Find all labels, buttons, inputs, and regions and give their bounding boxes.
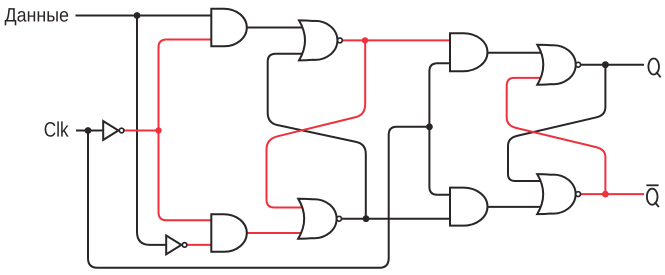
wire: red inverted clock down to AND2 upper input — [159, 131, 214, 221]
wire: Q-bar feedback crossover to NOR3 lower input (red) — [507, 78, 606, 194]
wire: AND2 output to NOR2 lower input (red) — [246, 232, 305, 234]
wire: NOR2 output to AND4 lower input — [342, 218, 452, 220]
AND gate 1 (data AND clock-bar) — [211, 9, 246, 47]
wire: AND4 output to NOR4 lower input — [487, 206, 544, 208]
wire: clock branch up to AND3 lower input — [429, 63, 452, 127]
junction: data line split — [134, 12, 141, 19]
wire: red inverted clock up to AND1 lower input — [159, 40, 214, 131]
wire: AND3 output to NOR3 upper input — [487, 52, 544, 54]
wire: Данные input to AND1 upper input — [76, 15, 214, 17]
AND gate 2 (data-bar AND clock-bar) — [211, 214, 247, 252]
wire: Q feedback crossover to NOR4 upper input — [508, 65, 605, 181]
wire: Clk down, along bottom, up to clock junction — [88, 127, 429, 268]
label: Q output — [648, 59, 660, 78]
wire: NOR1 output feedback crossover to NOR2 upper input (red) — [267, 40, 366, 207]
inverter U2 (data inverter) — [166, 236, 181, 255]
AND gate 4 (second stage, bottom) — [450, 188, 488, 226]
wire: Clk label to inverter U1 input — [76, 130, 104, 132]
wire: inverter U1 output (inverted clock, red) — [124, 130, 159, 132]
NOR gate 4 (output latch, bottom, drives Q-bar) — [537, 174, 575, 214]
wire: inverter U2 output to AND2 lower input (red) — [188, 244, 214, 246]
junction: Q-bar output split (red) — [602, 191, 609, 198]
overline of Q-bar — [646, 184, 658, 186]
wire: AND1 output to NOR1 upper input — [246, 27, 305, 29]
junction: Q output split — [602, 61, 609, 68]
junction: Clk line split — [85, 127, 92, 134]
wire: NOR2 output feedback crossover to NOR1 lower input — [268, 54, 366, 219]
NOR gate 2 (first latch, bottom) — [298, 199, 336, 239]
wire: NOR4 output to Q-bar (red) — [581, 193, 644, 195]
wire: data vertical down to inverter U2 input — [137, 16, 167, 245]
wire: NOR3 output to Q — [581, 64, 645, 66]
junction: NOR2 output split — [363, 215, 370, 222]
wire: clock branch down to AND4 upper input — [429, 127, 452, 195]
label: Q-bar output — [647, 189, 659, 207]
label: Clk (clock input) — [45, 121, 69, 136]
NOR gate 3 (output latch, top, drives Q) — [537, 45, 575, 85]
label: Данные (data input) — [5, 8, 68, 25]
junction: NOR1 output split (red) — [362, 37, 368, 43]
junction: inverted clock split (red) — [155, 127, 161, 133]
junction: clock distribution split — [426, 123, 433, 130]
NOR gate 1 (first latch, top) — [299, 20, 337, 60]
wire: NOR1 output to AND3 upper input (red) — [343, 39, 453, 41]
AND gate 3 (second stage, top) — [450, 33, 487, 71]
inverter U1 (clock inverter) — [103, 121, 118, 140]
